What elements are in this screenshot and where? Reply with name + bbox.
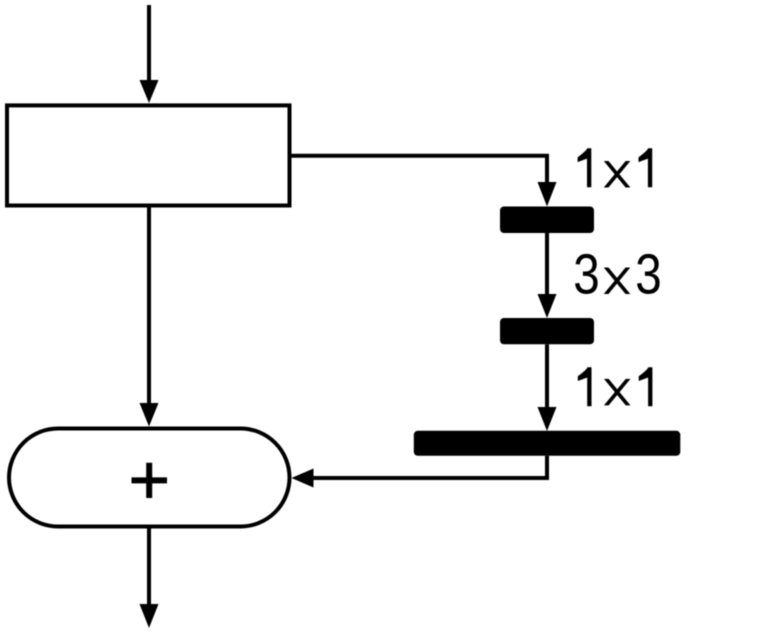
conv bar 1 (1x1)	[500, 207, 594, 234]
arrowhead: output	[140, 604, 159, 628]
arrowhead: input into top block	[140, 80, 159, 103]
arrowhead: shortcut into adder	[140, 403, 159, 427]
wire: bar1 to bar2 shaft	[545, 233, 549, 296]
label 3x3	[573, 244, 662, 307]
arrowhead: into adder from right	[292, 469, 314, 488]
conv bar 2 (3x3)	[500, 318, 594, 344]
wire: bar2 to bar3 shaft	[545, 344, 549, 409]
svg-text:3: 3	[573, 244, 599, 307]
arrowhead: into first conv bar	[538, 182, 557, 207]
wire: elbow from wide bar into adder	[312, 456, 547, 478]
label 1x1 (first)	[578, 148, 653, 187]
arrowhead: into wide conv bar	[538, 407, 557, 431]
wire: branch elbow from rectangle to first conv	[292, 156, 548, 184]
block: top layer rectangle	[7, 105, 290, 205]
wire: output shaft	[147, 529, 151, 607]
plus symbol inside adder	[132, 477, 168, 483]
wire: identity shortcut shaft	[147, 208, 151, 406]
node: adder pill	[9, 429, 290, 527]
conv bar 3 (wide 1x1)	[414, 431, 681, 456]
svg-text:3: 3	[635, 244, 661, 307]
wire: input shaft	[147, 5, 151, 82]
label 1x1 (second)	[578, 367, 653, 406]
arrowhead: into second conv bar	[538, 294, 557, 318]
